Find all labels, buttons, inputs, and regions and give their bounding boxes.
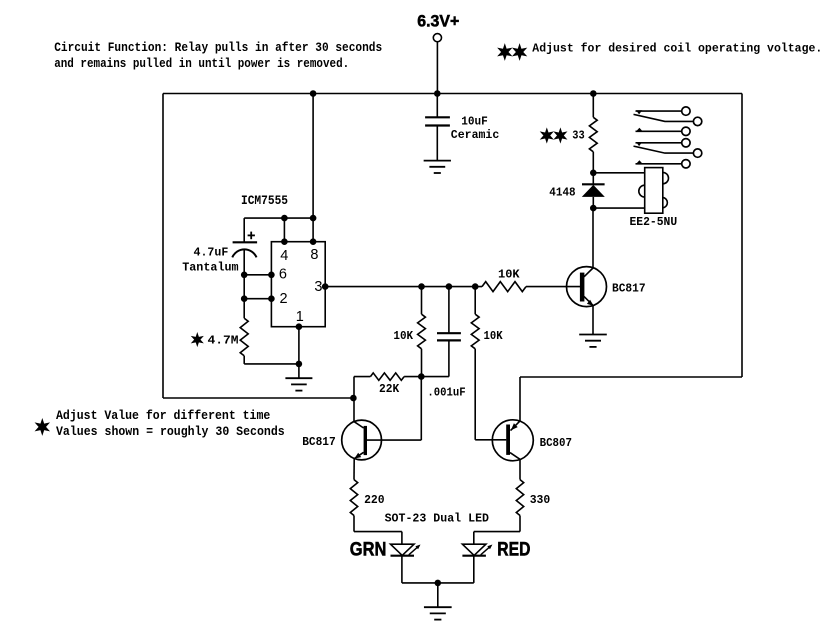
ground below C1 xyxy=(424,161,451,173)
node junction J1 (22K/10K/cap/base) xyxy=(418,373,425,380)
wire Q1 collector up to diode node xyxy=(592,208,594,268)
label BC817 (Q2) xyxy=(302,435,336,449)
svg-text:33: 33 xyxy=(572,129,584,142)
note: * asterisk for 4.7M xyxy=(193,335,202,345)
wire coil top link xyxy=(593,172,644,174)
resistor R3 33 (relay coil dropper) xyxy=(589,90,597,173)
capacitor C1 10uF ceramic xyxy=(425,94,450,161)
node 6.3V+ power terminal label xyxy=(417,12,459,31)
node junction 10K-A on pin3 rail xyxy=(418,283,425,290)
label 330 xyxy=(530,493,551,507)
svg-text:4: 4 xyxy=(280,248,288,264)
power terminal circle xyxy=(433,34,441,42)
svg-text:10K: 10K xyxy=(393,329,413,343)
wire top supply rail xyxy=(163,93,742,95)
wire pin 2 link xyxy=(241,295,275,302)
label 10uF Ceramic xyxy=(451,115,500,142)
svg-text:GRN: GRN xyxy=(350,540,387,561)
wire R8 to red LED xyxy=(474,516,520,545)
note: * adjust value text xyxy=(37,408,285,439)
node junction cap on pin3 rail xyxy=(446,283,453,290)
resistor R6 22K xyxy=(354,373,421,380)
relay K1 coil EE2-5NU xyxy=(639,168,669,214)
wire coil bottom link xyxy=(593,207,644,209)
wire R2 to Q1 base xyxy=(526,286,580,288)
node coil bottom junction xyxy=(590,205,597,212)
svg-text:RED: RED xyxy=(497,540,530,561)
wire pin 6 link xyxy=(241,272,275,279)
svg-text:EE2-5NU: EE2-5NU xyxy=(630,215,678,229)
wire pin 3 output rail xyxy=(322,283,482,290)
pin 1 xyxy=(296,309,304,325)
transistor Q1 BC817 NPN (relay driver) xyxy=(567,267,607,307)
svg-text:and remains pulled in until po: and remains pulled in until power is rem… xyxy=(54,56,349,71)
node junction 10K-B on pin3 rail xyxy=(472,283,479,290)
wire pin 4 vertical xyxy=(281,215,288,245)
wire right border of supply loop xyxy=(741,94,743,378)
label SOT-23 Dual LED xyxy=(385,511,489,525)
wire horizontal pins 4/8 supply link xyxy=(244,217,313,219)
svg-text:BC817: BC817 xyxy=(302,435,336,449)
label ICM7555 xyxy=(241,193,288,208)
label .001uF xyxy=(427,385,465,399)
label 22K xyxy=(379,382,400,396)
label 4148 xyxy=(549,185,575,199)
svg-text:Adjust Value for different tim: Adjust Value for different time xyxy=(56,408,270,423)
svg-text:BC817: BC817 xyxy=(612,282,646,296)
resistor R4 10K (pin3 to junction) xyxy=(418,287,426,377)
resistor R1 4.7M timing xyxy=(240,318,248,364)
svg-text:1: 1 xyxy=(296,309,304,325)
svg-text:2: 2 xyxy=(280,291,288,307)
wire pin 1 vertical to ground xyxy=(296,323,303,378)
label 33 xyxy=(572,129,584,142)
wire green LED to common node xyxy=(402,556,474,583)
ground below LEDs xyxy=(424,607,452,619)
svg-text:4148: 4148 xyxy=(549,185,575,199)
node coil top junction xyxy=(590,170,597,177)
svg-text:10uF: 10uF xyxy=(461,115,488,129)
wire IC supply vertical (pin 8) from top rail xyxy=(310,90,317,245)
resistor R8 330 xyxy=(516,480,523,516)
wire R7 to green LED xyxy=(354,516,402,545)
node LED common junction xyxy=(435,580,442,587)
wire bottom-left rail xyxy=(163,397,353,399)
label 4.7M xyxy=(208,334,239,348)
wire common node to ground xyxy=(437,583,439,607)
label 220 xyxy=(364,493,385,507)
svg-text:10K: 10K xyxy=(484,329,504,343)
wire Q2 emitter to R7 xyxy=(353,459,355,480)
svg-text:6.3V+: 6.3V+ xyxy=(417,12,459,31)
label 10K left of R4 xyxy=(393,329,413,343)
pin 3 xyxy=(314,279,322,295)
svg-text:Values shown = roughly 30 Seco: Values shown = roughly 30 Seconds xyxy=(56,424,285,439)
wire Q1 emitter to ground xyxy=(592,305,594,334)
note: ** adjust coil voltage xyxy=(499,42,822,59)
svg-text:Ceramic: Ceramic xyxy=(451,128,500,142)
LED D2 GRN xyxy=(391,544,421,556)
svg-text:4.7uF: 4.7uF xyxy=(194,245,229,259)
label BC807 xyxy=(540,436,572,450)
pin 6 xyxy=(279,267,287,283)
note: circuit function description text xyxy=(54,40,382,71)
relay K1 contact set 2 (SPDT) xyxy=(634,139,702,168)
transistor Q2 BC817 NPN (green LED driver, mirrored) xyxy=(342,420,382,460)
wire 4.7M bottom to pin 1 xyxy=(244,361,302,368)
label 10K right of R5 xyxy=(484,329,504,343)
svg-text:Circuit Function: Relay pulls: Circuit Function: Relay pulls in after 3… xyxy=(54,40,382,55)
wire red LED to common node xyxy=(473,556,475,583)
svg-text:3: 3 xyxy=(314,279,322,295)
capacitor C2 4.7uF tantalum (polarized) xyxy=(232,218,257,318)
capacitor C3 .001uF xyxy=(421,287,461,377)
resistor R5 10K (pin3 to Q3 base) xyxy=(471,287,506,440)
resistor R2 10K (pin3 to Q1 base) xyxy=(482,282,526,292)
svg-text:SOT-23 Dual LED: SOT-23 Dual LED xyxy=(385,511,489,525)
wire Q2 collector vertical xyxy=(350,377,357,422)
svg-text:8: 8 xyxy=(310,247,318,263)
pin 4 xyxy=(280,248,288,264)
wire bottom-right rail xyxy=(520,376,742,378)
resistor R7 220 xyxy=(350,480,357,516)
svg-text:4.7M: 4.7M xyxy=(208,334,239,348)
svg-text:Tantalum: Tantalum xyxy=(182,261,238,275)
ground below pin 1 xyxy=(285,378,312,390)
ground below Q1 xyxy=(579,335,607,347)
svg-text:220: 220 xyxy=(364,493,385,507)
relay K1 contact set 1 (SPDT) xyxy=(634,107,702,136)
pin 2 xyxy=(280,291,288,307)
label RED xyxy=(497,540,530,561)
label BC817 (Q1) xyxy=(612,282,646,296)
label 10K above R2 xyxy=(498,268,520,282)
wire power terminal to top rail xyxy=(434,42,441,97)
svg-text:6: 6 xyxy=(279,267,287,283)
diode D1 4148 flyback xyxy=(582,173,605,208)
label GRN xyxy=(350,540,387,561)
transistor Q3 BC807 PNP (red LED driver) xyxy=(492,420,533,461)
label 4.7uF Tantalum xyxy=(182,245,238,274)
op-amp / timer IC U1 ICM7555 body xyxy=(271,242,325,327)
svg-text:ICM7555: ICM7555 xyxy=(241,193,288,208)
svg-text:22K: 22K xyxy=(379,382,400,396)
wire left border of supply loop xyxy=(162,94,164,399)
plus sign of C2 xyxy=(248,232,255,240)
svg-text:10K: 10K xyxy=(498,268,520,282)
pin 8 xyxy=(310,247,318,263)
svg-text:BC807: BC807 xyxy=(540,436,572,450)
label EE2-5NU xyxy=(630,215,678,229)
wire Q3 collector to R8 xyxy=(519,459,521,479)
LED D3 RED xyxy=(462,544,492,556)
svg-text:Adjust for desired coil operat: Adjust for desired coil operating voltag… xyxy=(532,42,822,56)
svg-text:.001uF: .001uF xyxy=(427,385,465,399)
note: ** asterisks for R3 xyxy=(542,130,565,141)
wire J1 down to Q2 base xyxy=(367,377,421,441)
svg-text:330: 330 xyxy=(530,493,551,507)
wire Q3 emitter to right rail xyxy=(519,377,521,421)
